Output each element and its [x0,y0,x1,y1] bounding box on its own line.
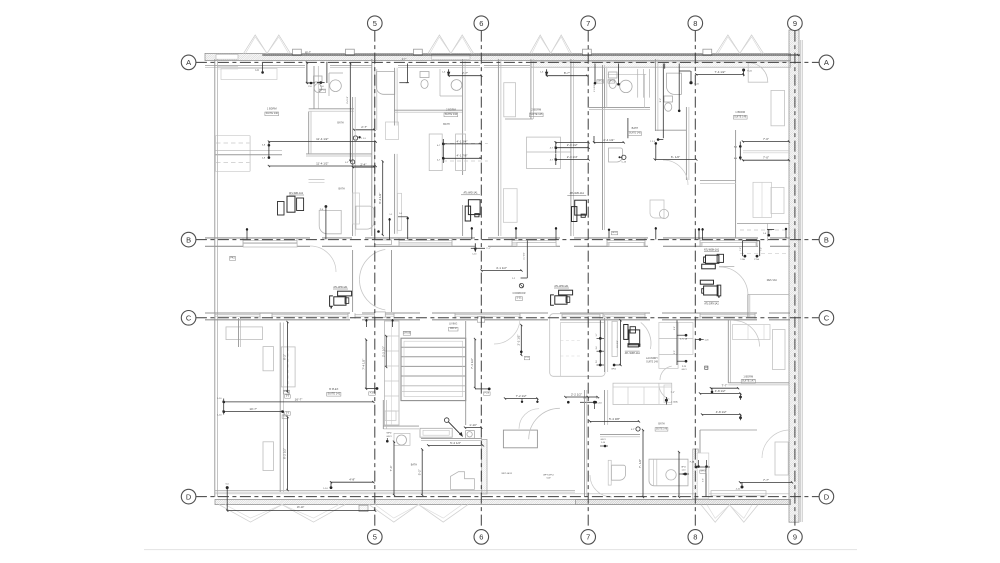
unit 145 bath cabinets [637,69,639,98]
svg-text:16'-10": 16'-10" [297,506,305,509]
svg-text:2'-7": 2'-7" [361,125,367,129]
grid bubble 6 bottom [474,530,489,545]
svg-text:GFCI: GFCI [701,471,706,473]
small drop right wall above B [785,228,787,238]
bottom middle bath upper wall [383,425,419,427]
svg-text:BATH: BATH [337,122,343,125]
dim washer drop left [325,205,328,208]
bottom middle bath sink [394,433,410,445]
kitchen island rect [503,430,537,448]
wall segment x352 [352,97,354,236]
vert dim 8-4 inside bath1 [349,63,351,162]
svg-text:ATL-WSH-1A1: ATL-WSH-1A1 [704,248,720,251]
bottom right unit bed lower [775,442,788,475]
svg-text:GFCI: GFCI [601,439,606,441]
grid bubble 5 bottom [368,530,383,545]
grid bubble 5 top [368,16,383,31]
svg-text:B: B [824,235,829,244]
laundry washer dryer appliance [624,325,628,340]
row B tick marks [246,228,248,239]
grid bubble 7 bottom [581,530,596,545]
svg-text:SUITE 145: SUITE 145 [530,113,543,116]
grid row line D [196,496,819,498]
chase rect right of col5 [398,193,402,230]
dim 2-2 right of col5 [385,336,387,367]
door leaf rect right of col8 [697,453,709,499]
dim 6-0 bath bottom [655,159,697,161]
unit 141 closet lower [263,442,274,471]
svg-text:8'-4 1/2": 8'-4 1/2" [347,96,349,104]
svg-text:8: 8 [693,19,697,28]
kitchen lower cabinet unit144 [386,122,399,140]
svg-text:D: D [824,492,830,501]
svg-text:P-1A: P-1A [690,460,695,463]
svg-text:4'-8": 4'-8" [349,478,355,482]
svg-text:7'- 1/2": 7'- 1/2" [638,459,642,468]
svg-text:1-10: 1-10 [217,398,222,400]
svg-text:16'-7": 16'-7" [295,397,303,401]
svg-text:SUITE 146: SUITE 146 [656,428,668,430]
bottom bath2 tub [649,459,688,486]
svg-text:GFCI: GFCI [320,90,325,92]
svg-text:2'-1 1/2": 2'-1 1/2" [594,84,596,92]
svg-text:7'-0": 7'-0" [763,137,769,141]
svg-text:GFCI: GFCI [609,80,615,82]
svg-text:7'-0": 7'-0" [763,156,769,160]
leader circle 2-4 dim mid-left [351,160,355,164]
unit 146 kitchen counter [753,182,771,217]
unit 140 bath sink [330,80,342,92]
svg-text:7'-4 1/2": 7'-4 1/2" [470,358,474,369]
dim right of unit141 [365,340,367,389]
svg-text:5'-4 1/2": 5'-4 1/2" [450,441,461,445]
pier hatch block near col5 [359,505,368,511]
leader circle tap bath2 [636,427,640,431]
laundry left wall [604,318,606,372]
overall top dimension line 65-7 [262,54,800,56]
upper mid walls between B and C left [352,250,354,312]
vert dim 7-4 right unit above D [474,339,476,388]
unit 141 closet upper [226,327,262,340]
unit 145 bed [504,83,516,117]
door arc B wall left [310,246,336,272]
svg-text:4'-7 1/2": 4'-7 1/2" [524,252,526,260]
unit141 dim 16-7 [224,401,374,403]
dim 2-7 unit144 [448,69,450,75]
laundry right dim vertical [676,320,678,365]
laundry chase rect [612,321,617,356]
row C window sills [215,314,260,316]
counter rect upper left unit [221,69,277,80]
leader callout circle to arrow [444,418,449,423]
unit141 dim 10-7 [224,411,283,413]
grid bubble 9 top [788,16,803,31]
dim bath145 2-4 cluster [556,141,589,143]
svg-text:WFT-GFCI: WFT-GFCI [543,475,554,477]
svg-text:WFT-GFCI: WFT-GFCI [502,473,513,475]
bath vertical dim left [393,442,395,495]
dim kitchen 4-7 vertical [406,64,408,83]
wall x463 [462,59,464,131]
svg-text:1-10: 1-10 [323,488,328,490]
svg-text:6.2": 6.2" [345,162,349,164]
vert dim col8 bath [678,452,680,497]
dots near col8 bottom [697,465,700,468]
svg-text:D: D [186,492,192,501]
grid bubble 9 bottom [788,530,803,545]
svg-text:1 BDRM: 1 BDRM [267,106,277,110]
garage label [403,331,410,335]
appliance unit 144 washer [465,206,470,221]
WFD GFCI leader [386,440,389,443]
dim 8-2 long drop unit145 bath [627,118,629,138]
row C wall lines [205,312,350,314]
wall right of garage [465,321,467,425]
grid bubble B right [819,232,834,247]
roof gable outline set 1 [244,35,291,54]
corridor appliance right lower dryer [700,280,713,284]
unit 141 cabinet label [283,390,289,394]
door arc left bottom [519,409,539,429]
svg-text:SUITE 146: SUITE 146 [734,115,747,118]
closet unit 144 left box [429,134,442,171]
grid column line 6 [480,31,482,530]
grid bubble B left [181,232,196,247]
window sill below top wall far left [217,66,238,68]
col8 dark marks bottom [695,466,698,469]
grid bubble D right [819,489,834,504]
row B window sills [243,240,297,242]
door arc bottom left of col7 [590,475,612,497]
svg-text:LAUNDRY: LAUNDRY [646,357,658,360]
svg-text:8'-4 1/2": 8'-4 1/2" [378,193,382,204]
small closet right of wall 352 [353,193,360,224]
grid row line B [196,239,819,241]
grid column line 5 [374,31,376,530]
unit 146 bath curved counter [667,73,682,94]
svg-text:5: 5 [373,533,377,542]
unit 145 bath toilet [609,72,618,78]
dot tick right of laundry [699,338,702,341]
svg-text:GRGE: GRGE [403,330,411,334]
top wall inner face lines left half [205,64,305,66]
symbol circle near corridor [519,283,523,287]
svg-text:7'-4 1/2": 7'-4 1/2" [361,359,365,370]
svg-text:RES VAC: RES VAC [767,279,778,282]
dim top-left drop [261,71,264,74]
svg-text:SUITE 145: SUITE 145 [629,132,641,135]
svg-text:2'-0": 2'-0" [674,350,676,354]
svg-text:ATL-W/D-1A1: ATL-W/D-1A1 [463,192,478,195]
corridor washer dryer 1 [338,291,352,296]
bottom right unit label [741,379,755,383]
svg-text:4'-1 3/4": 4'-1 3/4" [457,139,468,143]
svg-text:CORRIDOR: CORRIDOR [512,292,525,295]
svg-text:BATH: BATH [443,123,450,126]
door arc bottom right D [762,430,790,458]
dim unit145 bath GFCI cluster [594,64,596,85]
grid column line 9 [794,31,796,530]
dim unit140 bath cluster [306,62,308,84]
unit 145 bath sink [620,80,632,92]
svg-text:ATL-W/D-1A1: ATL-W/D-1A1 [570,192,585,195]
svg-text:A: A [186,58,191,67]
svg-text:SUITE 144: SUITE 144 [445,113,458,116]
dim drop with dot right of col8 [678,64,680,113]
bath2 left fixtures [356,206,374,229]
svg-text:2'-2 1/2": 2'-2 1/2" [571,392,582,396]
corridor door arc lower [359,280,385,310]
svg-text:9: 9 [793,533,797,542]
svg-text:1-10: 1-10 [217,414,222,416]
wall x571 unit separation [570,59,572,236]
unit141 vert dim upper [287,322,289,392]
unit 144 bath sink [451,80,462,91]
unit 140 bath wall vertical [313,66,315,109]
svg-text:4'-1 1/2": 4'-1 1/2" [496,266,507,270]
svg-text:11'-4 1/2": 11'-4 1/2" [316,161,328,165]
unit 141 cabinet rect [281,347,295,387]
unit 147 corner walls [727,320,729,383]
unit 145 interior walls [530,59,532,119]
grid row line A [196,61,819,63]
dim corridor horizontal 4-1 [482,270,522,272]
walls around unit 146 bath [654,59,656,131]
dim 11-4 upper [269,141,376,143]
dim long drop 8-2 unit146 [662,64,664,139]
grid bubble D left [181,489,196,504]
dim 2-7 unit145 [546,69,548,75]
garage door ladder [401,338,466,400]
svg-text:1 BDRM: 1 BDRM [743,374,753,378]
svg-text:0-7x 1A: 0-7x 1A [680,337,688,340]
dim 16-10 below bottom wall [226,486,229,489]
vert dim 7-0 bottom center [642,430,644,497]
svg-text:3'-6": 3'-6" [703,478,705,482]
svg-text:P-d1: P-d1 [747,71,752,73]
svg-text:GFCI: GFCI [611,369,616,371]
bath vertical dim mid [421,449,423,495]
long vertical dim 8-4 left of col5 [382,161,384,235]
svg-text:6.2": 6.2" [631,429,635,431]
left exterior wall [214,59,216,497]
svg-text:ATL-W/D-1A1: ATL-W/D-1A1 [333,286,348,289]
svg-text:8'-1 1/2": 8'-1 1/2" [617,340,619,348]
dim 2-7 bath1 bottom [354,129,374,131]
bottom right closet [700,429,757,431]
svg-text:5'-4 3/8": 5'-4 3/8" [609,417,620,421]
small shelf rect left [385,411,396,421]
svg-text:2'-4": 2'-4" [360,163,366,167]
dim corridor vertical 527 [526,240,528,278]
svg-text:P-08: P-08 [484,393,489,395]
appliance unit 145 washer [572,207,577,222]
svg-text:7'-2": 7'-2" [740,247,742,251]
kitchen cabinet strip left of garage [384,321,399,425]
svg-text:WFD: WFD [387,433,392,435]
unit141 boxed tick labels [285,395,291,399]
wall x395 vertical [394,68,396,126]
corridor washer dryer 2 [559,290,573,295]
svg-text:4-1D: 4-1D [736,489,741,491]
dim 664 vertical [664,64,666,69]
grid column line 7 [587,31,589,530]
doors arcs bottom center [529,408,560,439]
page edge line bottom [144,549,857,551]
leader circle 1 1 6 bath1 [353,136,357,140]
svg-text:2'-2 1/2": 2'-2 1/2" [381,346,385,357]
bath dim 1-10 [465,427,481,429]
svg-text:BATH: BATH [338,188,344,191]
svg-text:SUITE 140: SUITE 140 [266,112,279,115]
svg-text:BATH: BATH [632,127,639,130]
svg-text:6: 6 [479,533,483,542]
svg-text:SUITE 147: SUITE 147 [742,378,755,382]
right wall outer face lines [800,40,802,522]
bottom middle bath lower wall [421,438,482,440]
unit 147 closet counter top [733,325,771,340]
corridor appliance right upper washer [706,255,719,263]
svg-text:8'-7": 8'-7" [564,71,570,75]
unit 146 toilet [664,96,673,102]
row C tick marks [365,319,367,327]
roof gable outline set 4 [716,35,764,54]
shower corner shape [451,472,475,490]
top wall lower band right half [531,62,791,67]
living room sectional sofa [550,314,605,377]
wall below C at 238 [238,318,240,347]
unit141 vert dim lower [287,417,289,490]
svg-text:1'-1": 1'-1" [486,248,490,250]
svg-text:A: A [824,58,829,67]
vert dim right col6 2-2 [520,325,522,355]
dim closet1 4-1 pair [443,143,480,145]
svg-text:GFCI: GFCI [386,436,392,438]
walls near col7 bottom [584,390,586,497]
bottom wall upper face lines [215,489,575,491]
svg-text:2'-7": 2'-7" [462,71,468,75]
corridor door arc upper [359,250,385,280]
svg-text:11'-4 1/2": 11'-4 1/2" [316,137,328,141]
dim 11-4 lower [269,165,376,167]
top exterior wall hatched band [205,53,791,60]
svg-text:C: C [824,314,830,323]
unit wall left of column 5 [371,59,373,236]
svg-text:2 BDRM: 2 BDRM [446,107,456,111]
vestibule walls right of col8 [719,266,734,268]
svg-text:1'-10": 1'-10" [469,423,477,427]
bottom exterior wall hatched band [215,500,791,505]
dim closet2 pair [556,147,589,149]
stair band note [230,257,236,261]
svg-text:7'-4": 7'-4" [389,465,393,471]
row B white window rects [243,243,297,247]
panel box symbol [705,366,708,369]
svg-text:SUITE 141: SUITE 141 [327,391,340,395]
white cap on C at col5 [375,312,386,317]
svg-text:2'-3 1/2": 2'-3 1/2" [567,143,578,147]
roof gable outline set 3 [530,35,572,54]
bath2 top wall left of col5 [306,153,372,155]
svg-text:BATH: BATH [411,464,417,467]
svg-text:P-08: P-08 [370,392,375,394]
porch white rect in bottom band [711,491,766,496]
svg-text:2'-3 1/4": 2'-3 1/4" [567,155,578,159]
bottom middle bath vanity [420,428,452,437]
svg-text:ATL-DRY-1A1: ATL-DRY-1A1 [704,303,719,306]
svg-text:7'-2": 7'-2" [671,392,676,394]
bottom siding zigzag left [219,505,345,522]
svg-text:2 BDRM: 2 BDRM [531,107,541,111]
svg-text:2'-4": 2'-4" [674,326,676,330]
bath dim 5-4 [428,444,483,446]
svg-text:10'-7": 10'-7" [249,407,257,411]
svg-text:B PLEX: B PLEX [329,387,338,391]
white cap rect on C at col6 [477,317,484,323]
mid bath lower toilet [609,148,623,162]
svg-text:C: C [186,314,192,323]
drop dot near top right B [767,228,774,230]
unit 144 kitchen counter shape [376,72,395,95]
bottom bath2 toilet [612,465,626,480]
svg-text:4'-8 1/2": 4'-8 1/2" [715,389,726,393]
svg-text:GFCI: GFCI [682,369,687,371]
grid row line C [196,317,819,319]
unit 141 name label [327,392,341,396]
svg-text:7'-4 1/2": 7'-4 1/2" [715,70,726,74]
dim 7-7 above unit147 [711,387,738,389]
svg-text:8'-2 1/2": 8'-2 1/2" [283,448,287,459]
grid bubble 8 top [688,16,703,31]
svg-text:7'-2 1/2": 7'-2 1/2" [516,394,527,398]
right exterior wall hatched [789,30,799,522]
grid bubble 7 top [581,16,596,31]
door arc corridor right [663,160,688,185]
unit 146 kitchen wall [735,130,737,238]
svg-text:6'- 1/2": 6'- 1/2" [671,155,680,159]
dim 9-4 bottom center [590,420,639,422]
unit 146 bed [771,90,785,125]
svg-text:ATL-WSH-1A1: ATL-WSH-1A1 [625,352,641,355]
svg-text:7'-2": 7'-2" [761,247,763,251]
unit 146 dresser [771,187,784,213]
svg-text:8'-2": 8'-2" [283,354,287,360]
svg-text:B: B [186,235,191,244]
dim 7-4 top right [696,73,743,75]
svg-text:BATH: BATH [658,423,664,426]
svg-text:7: 7 [586,533,590,542]
svg-text:4'-7": 4'-7" [402,59,407,61]
grid bubble A right [819,55,834,70]
white cap on B at col5 [375,240,392,245]
svg-text:P 1A: P 1A [754,258,759,261]
row B wall lines [205,237,310,239]
grid bubble A left [181,55,196,70]
grid bubble 6 top [474,16,489,31]
wall right of col5 lower [394,154,396,234]
unit 141 long wall [279,323,281,493]
svg-text:4'-1 7/8": 4'-1 7/8" [457,154,468,158]
roof gable outline set 2 [428,35,474,54]
bottom siding zigzag middle [369,505,468,522]
wall x498 unit separation [497,59,499,236]
top band window slots [216,54,238,59]
party wall hatch col8 bottom [693,449,698,499]
unit 144 bath toilet [420,72,429,78]
svg-text:8'-2": 8'-2" [660,98,662,103]
dim corridor drops right pair [743,240,760,242]
svg-text:5'-2": 5'-2" [417,469,421,475]
